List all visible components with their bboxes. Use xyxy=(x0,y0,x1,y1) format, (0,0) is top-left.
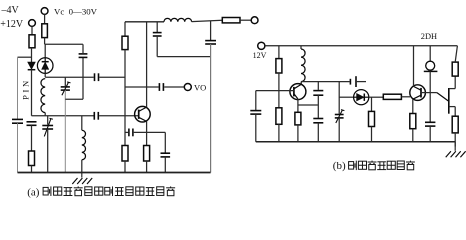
svg-text:Vc 0—30V: Vc 0—30V xyxy=(54,6,98,16)
svg-text:–4V: –4V xyxy=(1,5,20,16)
svg-text:2DH: 2DH xyxy=(421,32,437,41)
svg-text:+12V: +12V xyxy=(0,19,24,30)
svg-text:PIN: PIN xyxy=(21,78,31,100)
svg-text:(b): (b) xyxy=(333,160,346,172)
svg-text:VO: VO xyxy=(194,83,206,93)
svg-text:(a): (a) xyxy=(27,186,40,198)
svg-text:12V: 12V xyxy=(253,51,267,60)
